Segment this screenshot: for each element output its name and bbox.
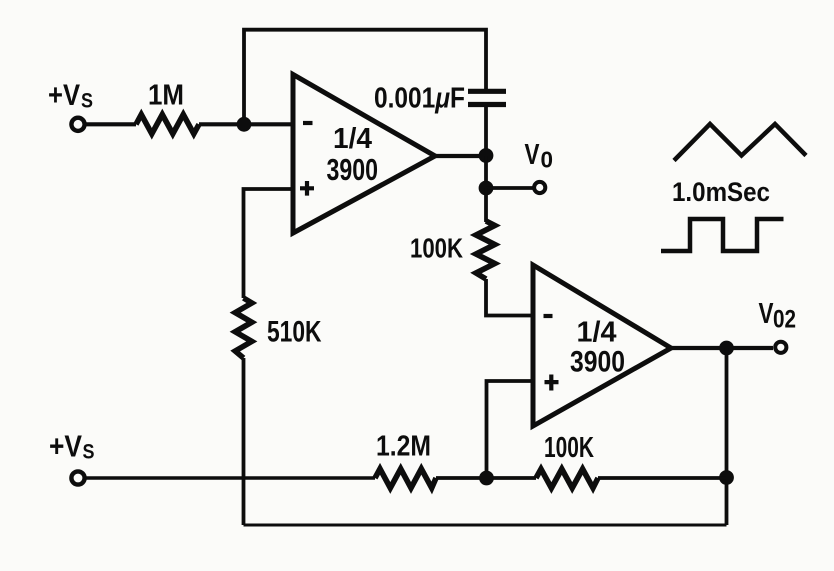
- op-amp U2 plus input symbol: [545, 375, 559, 391]
- node A junction dot: [237, 117, 252, 132]
- square wave symbol: [661, 219, 784, 251]
- svg-text:1M: 1M: [148, 80, 184, 112]
- wire R4 to node E: [598, 476, 727, 480]
- wire U2 output to terminal V02: [671, 346, 773, 350]
- op-amp U2 minus input symbol: [544, 314, 553, 318]
- svg-text:S: S: [81, 90, 93, 113]
- svg-text:02: 02: [773, 306, 796, 334]
- resistor R1 1M zigzag: [136, 115, 199, 134]
- svg-text:3900: 3900: [327, 152, 379, 187]
- wire top feedback loop from node A up and over to capacitor: [244, 30, 486, 124]
- svg-text:+V: +V: [48, 79, 80, 112]
- wire node V0 down to resistor R2: [484, 188, 488, 222]
- svg-text:+V: +V: [49, 429, 82, 464]
- node D junction dot (U2 + input): [479, 471, 494, 486]
- svg-text:0.001μF: 0.001μF: [374, 83, 465, 115]
- svg-text:100K: 100K: [544, 432, 594, 464]
- svg-text:V: V: [759, 298, 775, 330]
- wire U1 plus input to 510K line: [244, 189, 294, 298]
- terminal +Vs top-left: [71, 118, 84, 131]
- svg-text:1/4: 1/4: [333, 123, 372, 155]
- node B junction dot (output / cap): [479, 148, 494, 163]
- svg-text:1.0mSec: 1.0mSec: [672, 177, 770, 207]
- capacitor C1 0.001uF plates: [468, 91, 506, 104]
- wire node C down to bottom rail: [725, 348, 729, 525]
- op-amp U1 minus input symbol: [303, 121, 313, 125]
- op-amp U2 triangle 1/4 3900: [533, 265, 671, 426]
- terminal +Vs bottom-left: [71, 471, 84, 484]
- resistor R5 510K vertical zigzag: [235, 298, 252, 358]
- svg-text:3900: 3900: [570, 346, 625, 379]
- wire +Vs to resistor R1: [85, 122, 136, 126]
- op-amp U1 triangle 1/4 3900: [293, 75, 435, 234]
- wire R3 to R4: [436, 476, 536, 480]
- svg-text:1/4: 1/4: [577, 317, 617, 349]
- wire U2 plus input left and down to node D: [487, 381, 534, 478]
- node C junction dot (V02 feedback): [719, 341, 734, 356]
- wire node B down to node V0: [484, 156, 488, 189]
- svg-text:510K: 510K: [267, 316, 322, 349]
- terminal V02: [775, 342, 786, 353]
- triangle wave symbol: [674, 124, 806, 161]
- op-amp U1 plus input symbol: [300, 181, 314, 196]
- wire U1 output to node B: [435, 154, 486, 158]
- wire node V0 to terminal: [486, 186, 534, 190]
- svg-text:1.2M: 1.2M: [376, 431, 431, 463]
- wire +Vs bottom to resistor R3: [85, 476, 375, 479]
- wire R5 bottom down to bottom rail: [242, 358, 246, 525]
- svg-text:S: S: [83, 441, 95, 464]
- wire R2 bottom to U2 inverting input: [486, 279, 534, 316]
- node E junction dot (feedback/100K): [719, 470, 734, 485]
- node V0 junction dot: [479, 181, 494, 196]
- resistor R2 100K vertical zigzag: [476, 221, 495, 279]
- terminal V0: [534, 182, 545, 193]
- wire R1 to op-amp U1 inverting input: [199, 122, 293, 126]
- svg-text:100K: 100K: [410, 233, 463, 264]
- wire capacitor bottom to output node: [484, 105, 488, 157]
- wire bottom rail: [244, 524, 727, 527]
- svg-text:0: 0: [541, 147, 554, 173]
- resistor R3 1.2M zigzag: [375, 469, 436, 488]
- svg-text:V: V: [525, 139, 541, 171]
- resistor R4 100K zigzag: [536, 469, 598, 488]
